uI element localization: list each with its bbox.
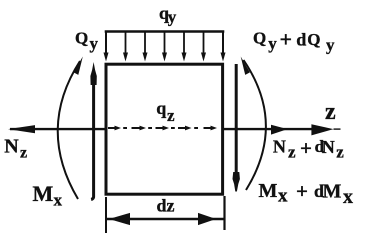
q_z dashed arrow 2 [132,126,147,131]
svg-text:y: y [326,36,335,55]
q_z dashed arrow 3 [156,126,170,131]
q_z dashed arrow 5 [204,126,218,131]
load arrow 2 [123,32,128,62]
svg-text:Q: Q [253,29,266,48]
left moment arc M_x [58,57,83,200]
axis line right [223,128,312,130]
q_z dashed arrow 1 [108,126,121,131]
label Q_y + dQ_y [253,26,335,54]
load arrow 5 [182,32,187,62]
svg-text:Q: Q [75,28,88,47]
svg-text:y: y [90,34,99,53]
q_z short dash 3 [171,127,175,129]
distributed load q_y top line [105,30,225,33]
svg-text:x: x [278,185,288,206]
svg-text:M: M [323,180,342,202]
svg-text:+: + [300,136,312,160]
svg-text:y: y [268,34,277,53]
right moment arc M_x+dM_x [241,57,266,191]
svg-text:x: x [54,190,63,209]
svg-text:d: d [296,30,306,50]
left shear arrow Q_y (up) [90,62,96,200]
svg-text:y: y [168,8,177,27]
label q_z [156,98,175,125]
svg-text:x: x [343,186,353,208]
load arrow 1 [104,32,109,62]
svg-text:z: z [167,106,175,125]
svg-text:z: z [325,99,336,125]
q_z short dash 2 [148,127,152,129]
label M_x + dM_x [259,179,354,208]
label N_z [4,136,27,162]
svg-text:z: z [288,142,296,161]
svg-text:z: z [336,143,344,162]
label N_z + dN_z [273,136,344,162]
load arrow 3 [143,32,148,62]
svg-text:+: + [296,179,308,203]
svg-text:M: M [33,181,54,206]
svg-text:Q: Q [307,30,320,49]
axis line left (N_z) [8,125,106,133]
svg-text:N: N [4,136,19,158]
load arrow 7 [221,32,226,62]
svg-text:N: N [322,137,335,157]
svg-text:M: M [259,180,278,202]
label q_y [159,3,177,27]
force arrowhead N_z+dN_z [271,125,288,135]
right shear arrow Q_y+dQ_y (down) [233,64,240,192]
svg-text:N: N [273,136,286,156]
load arrow 6 [201,32,206,62]
dimension extension line left [105,197,107,233]
q_z dashed arrow 4 [178,126,192,131]
beam element rectangle [106,64,223,194]
dimension arrow dz [107,213,224,225]
dimension extension line right [223,196,225,230]
label dz [157,196,175,216]
label Q_y [75,28,99,53]
q_z short dash 1 [123,127,127,129]
z axis arrowhead [311,124,340,135]
svg-text:+: + [280,26,293,51]
load arrow 4 [162,32,167,62]
svg-text:z: z [20,145,27,162]
svg-text:dz: dz [157,196,175,216]
label M_x [33,181,63,210]
q_z short dash 4 [194,127,198,129]
svg-text:q: q [156,98,166,118]
